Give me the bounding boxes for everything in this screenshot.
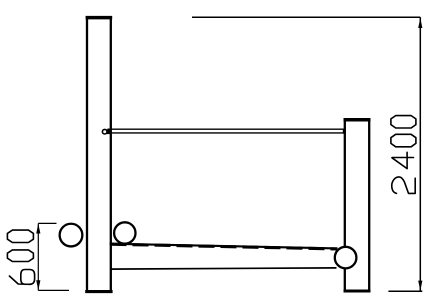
digit 0: [391, 134, 416, 147]
dimension 2400 line: [419, 17, 421, 291]
top rail: [108, 129, 345, 133]
pipe circle middle: [114, 222, 135, 243]
dimension 600 extension line bottom: [38, 289, 69, 291]
pipe circle right: [335, 247, 357, 269]
left post: [85, 18, 112, 292]
dimension 2400 arrow down: [418, 281, 422, 291]
top rail end cap: [102, 129, 107, 134]
top rail left end block: [106, 129, 110, 134]
right post: [344, 120, 371, 291]
digit 0: [391, 116, 416, 128]
digit 0: [7, 250, 33, 262]
digit 6: [9, 270, 34, 285]
digit 0: [7, 230, 33, 242]
dimension text 600: [7, 230, 34, 284]
dimension 600 line: [37, 223, 39, 290]
bottom rail top edge: [110, 244, 338, 249]
dimension 2400 extension line top: [192, 16, 420, 18]
bottom rail bottom edge: [110, 268, 337, 269]
dimension 2400 extension line bottom: [388, 290, 422, 292]
dimension 600 extension line top: [38, 222, 56, 224]
digit 4: [392, 152, 414, 168]
dimension 2400 arrow up: [418, 18, 422, 28]
dimension 600 arrow down: [36, 280, 40, 290]
dimension text 2400: [391, 116, 416, 194]
digit 2: [392, 177, 415, 194]
dimension 600 arrow up: [36, 224, 40, 234]
pipe circle left: [60, 224, 83, 247]
top rail right end junction: [343, 129, 346, 134]
